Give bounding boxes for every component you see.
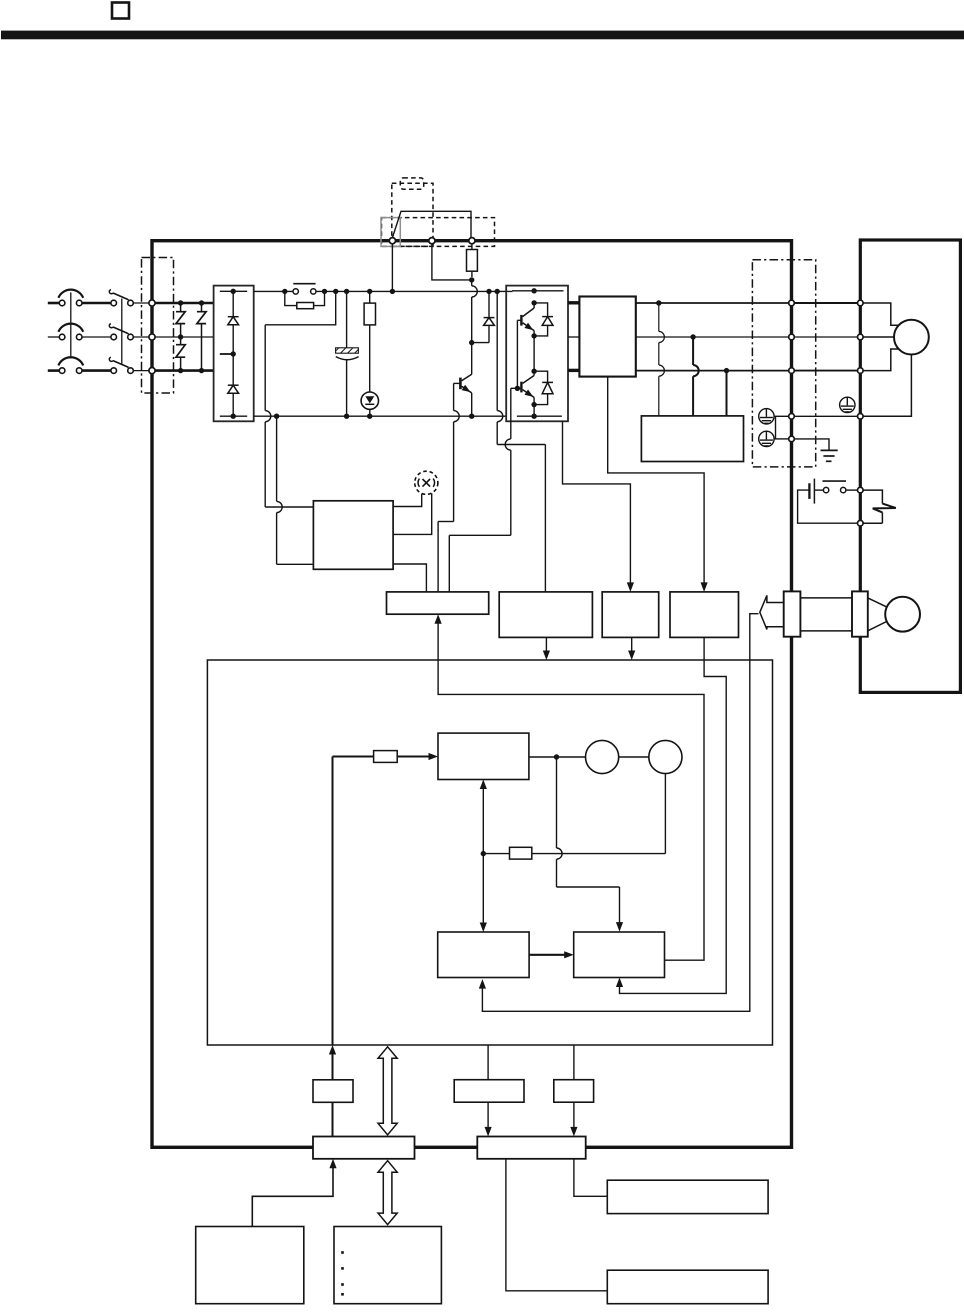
virtual encoder circle <box>649 740 682 773</box>
motor frame ground wire <box>863 355 911 417</box>
wire gate drive <box>449 388 517 592</box>
wire encoder rx out <box>616 637 726 993</box>
rectifier diode D2 <box>228 325 239 394</box>
PE symbol 2 <box>759 431 774 446</box>
servo motor M <box>894 320 929 355</box>
motor winding feed U <box>863 303 899 325</box>
rectifier mid tap <box>220 351 236 356</box>
varistor Z1 <box>176 303 185 337</box>
wire A to CN3 <box>332 1102 334 1136</box>
terminal B1 motor <box>858 487 864 493</box>
IGBT bottom tap <box>533 405 535 417</box>
IGBT upper transistor <box>521 303 534 336</box>
regen diode D3 <box>472 291 495 342</box>
wire model cmd branch <box>557 757 624 932</box>
phase link U <box>795 302 858 304</box>
IGBT gate chain <box>515 320 522 391</box>
terminal PE amp <box>789 414 795 420</box>
IGBT center tap <box>533 336 535 371</box>
regen option small dashed box <box>400 178 423 189</box>
model feedback gain box <box>481 774 666 860</box>
inrush resistor R2 <box>285 291 325 308</box>
heading rule bar <box>1 31 964 40</box>
control power supply box <box>313 501 393 570</box>
motor winding feed V <box>863 336 894 338</box>
terminal V amp <box>789 334 795 340</box>
wire PSU to fan 1 <box>393 494 422 507</box>
wire P bus sense <box>497 291 545 592</box>
wire model input <box>333 753 439 760</box>
terminal V motor <box>858 334 864 340</box>
terminal U motor <box>858 300 864 306</box>
CT tap U <box>659 303 665 416</box>
wire Q1 base drive <box>438 383 460 592</box>
regen resistor R1 <box>467 244 478 283</box>
magnetic contactor MC <box>82 290 150 374</box>
output stage box <box>579 297 635 377</box>
wire P to bus <box>391 244 393 292</box>
P bus rail <box>254 290 564 293</box>
model input filter box <box>374 751 398 763</box>
rectifier bridge box <box>214 286 254 422</box>
digital IO box <box>607 1180 768 1213</box>
voltage detection box <box>499 592 592 638</box>
wire controller to CN3 <box>252 1159 336 1227</box>
PE wire to motor <box>795 415 858 417</box>
brake coil loop <box>863 490 882 523</box>
wire C down <box>432 244 472 280</box>
phase link W <box>795 370 858 372</box>
brake battery <box>809 479 814 504</box>
wire speed to current <box>529 951 574 958</box>
servo amplifier enclosure <box>152 241 792 1148</box>
terminal W amp <box>789 368 795 374</box>
wire regen down <box>469 280 477 345</box>
terminal U amp <box>789 300 795 306</box>
wire B to CN1 <box>485 1102 492 1136</box>
open data arrow 2 <box>378 1161 397 1225</box>
input filter box A <box>313 1080 353 1103</box>
N bus rail <box>254 414 562 419</box>
rectifier bottom tap <box>220 393 247 419</box>
wire L3 bus <box>155 368 214 373</box>
PE symbol motor <box>840 397 855 412</box>
rectifier top tap <box>220 289 247 294</box>
terminal PE2 amp <box>789 436 795 442</box>
phase line W <box>636 368 789 373</box>
current detection box <box>641 416 743 462</box>
junction dots on P rail <box>282 289 500 294</box>
discharge resistor R3 <box>364 291 375 392</box>
wire voltage det out <box>543 637 550 660</box>
option units box <box>334 1227 441 1304</box>
varistor Z2 <box>176 337 185 371</box>
base amplifier box <box>387 592 489 614</box>
analog monitor box <box>607 1270 768 1304</box>
brake supply wire <box>798 490 858 523</box>
servo motor enclosure <box>860 240 960 692</box>
wire output sense <box>608 377 708 592</box>
wire CN1 to digital IO <box>574 1159 607 1197</box>
brake contact <box>814 481 857 493</box>
rectifier diode D1 <box>228 291 239 325</box>
model position control box <box>438 733 529 779</box>
line filter (dash-dot box) <box>142 258 174 394</box>
wire overcurrent det out <box>628 637 635 660</box>
open data arrow 1 <box>378 1047 397 1135</box>
encoder open arrow <box>760 595 784 629</box>
connector CN3 <box>313 1137 415 1159</box>
IGBT lower diode <box>534 371 553 404</box>
wire current out to PWM <box>435 614 705 960</box>
terminal L3 <box>149 368 155 374</box>
wire encoder feedback <box>479 614 759 1012</box>
regen terminal wide dashed box <box>382 218 495 247</box>
wire PSU to base amp <box>393 564 426 592</box>
PE link wires <box>774 416 788 439</box>
brake flash symbol <box>873 504 896 513</box>
terminal B2 motor <box>858 520 864 526</box>
regen gray inner box <box>381 218 400 247</box>
earth ground <box>795 439 838 461</box>
phase line V <box>636 334 789 339</box>
wire cmd in <box>329 1045 336 1080</box>
terminal P <box>389 238 395 244</box>
overcurrent detection box <box>602 592 659 638</box>
wire N to control PSU <box>277 416 314 564</box>
wire PSU to fan 2 <box>393 493 432 534</box>
wire model out <box>529 754 649 759</box>
circuit breaker MCCB <box>48 290 83 374</box>
varistor Z3 <box>197 303 206 371</box>
terminal D <box>469 238 475 244</box>
connector CN2 <box>784 591 801 636</box>
phase line U <box>636 300 789 305</box>
interface box C <box>554 1045 594 1102</box>
charge lamp <box>361 392 378 416</box>
regen transistor Q1 <box>460 343 471 417</box>
encoder receiver box <box>670 592 739 638</box>
wire L2 bus <box>155 334 214 339</box>
IGBT module box <box>506 286 568 422</box>
wire P to control PSU <box>265 291 336 507</box>
virtual motor circle <box>586 740 619 773</box>
junction dots on N rail <box>274 414 475 419</box>
control circuit box <box>207 660 772 1045</box>
encoder cable <box>800 598 852 631</box>
terminal PE motor <box>858 414 864 420</box>
wire L1 bus <box>155 300 214 305</box>
PE symbol 1 <box>759 409 774 424</box>
regen option tall dashed box <box>392 183 433 246</box>
wire model to speed <box>480 780 487 933</box>
terminal L1 <box>149 300 155 306</box>
current control box <box>574 932 665 978</box>
CT tap V <box>693 337 699 416</box>
connector CN1 <box>477 1137 585 1159</box>
wire command riser <box>332 757 334 1046</box>
CT tap W <box>726 371 728 416</box>
wire module sense <box>563 421 635 592</box>
connector motor side <box>852 591 868 636</box>
module-output stubs <box>568 303 579 371</box>
terminal W motor <box>858 368 864 374</box>
encoder coupling <box>868 597 920 632</box>
IGBT lower transistor <box>521 371 534 404</box>
IGBT module dots <box>531 288 536 407</box>
CNP2 dash-dot box <box>752 260 815 467</box>
IGBT upper diode <box>534 303 553 336</box>
heading bullet square <box>112 3 129 19</box>
terminal L2 <box>149 334 155 340</box>
wire C to CN1 <box>570 1102 577 1136</box>
terminal C <box>429 238 435 244</box>
phase link V <box>795 336 858 338</box>
controller box <box>196 1227 304 1304</box>
smoothing capacitor C1 <box>336 291 359 416</box>
motor winding feed W <box>863 349 899 371</box>
inrush relay contact <box>293 284 316 294</box>
regen jumper bar <box>392 211 471 237</box>
cooling fan <box>415 471 438 494</box>
interface box B <box>454 1045 524 1102</box>
speed control box <box>438 932 529 978</box>
wire CN1 to analog monitor <box>506 1159 607 1291</box>
